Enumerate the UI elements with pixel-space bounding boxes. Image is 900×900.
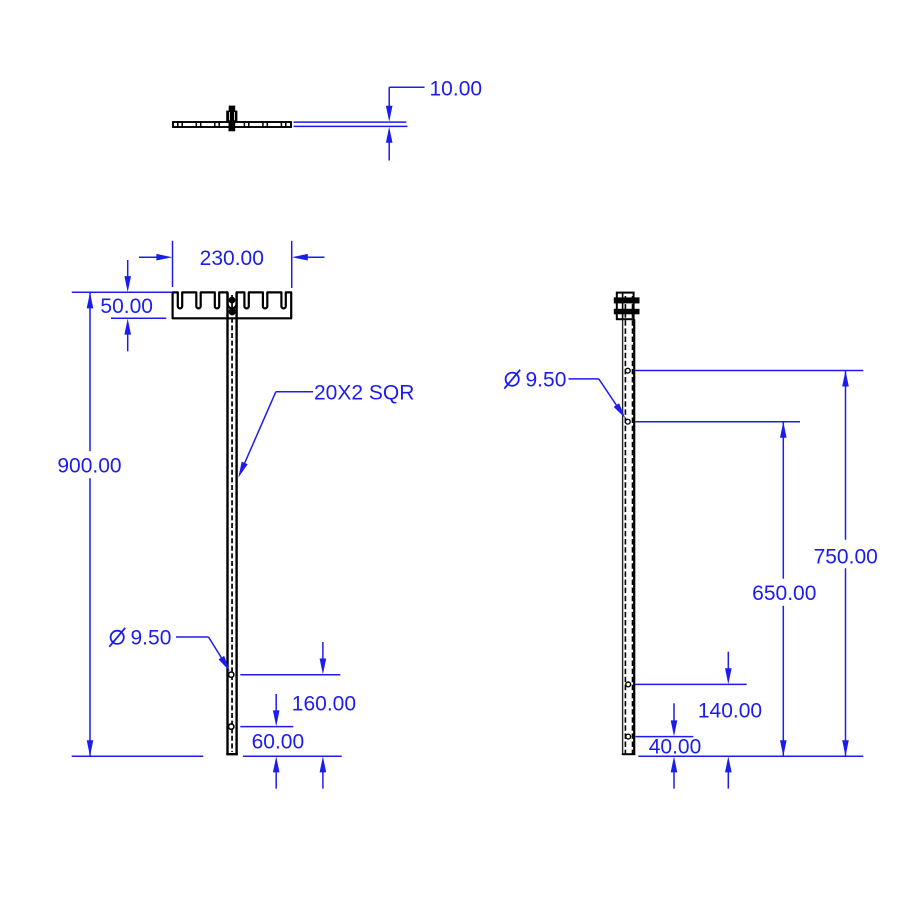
dimension 50.00 arrows [124,260,131,351]
dimension 900.00 line and arrows [87,292,94,756]
dimension text 900.00 [57,455,121,478]
tube size label 20X2 SQR leader [238,392,313,478]
svg-text:20X2 SQR: 20X2 SQR [314,382,414,405]
side view: hole at 650 from bottom [625,419,630,424]
front diameter symbol [109,628,125,647]
dimension 10.00 arrows and leader [386,87,425,160]
front view: hole at 60 from bottom [229,724,234,729]
side view: head plate outline [617,293,634,320]
dimension text 750.00 [814,545,878,568]
dimension text 160.00 [292,693,356,716]
dimension 40.00 extension line [635,736,693,738]
svg-text:9.50: 9.50 [131,627,172,650]
side baseline extension line [638,755,863,757]
dimension 50.00 extension lines [72,292,173,318]
front view: handle tube edges [226,293,238,754]
side view: lower fixing bolt (through) [614,309,640,315]
side view: hole at 40 from bottom [626,734,631,739]
svg-text:750.00: 750.00 [814,545,878,568]
dimension 650.00 line and arrows [780,422,787,757]
tube size text 20X2 SQR [314,382,414,405]
top view: rake head bar (plan view) [173,122,291,127]
side view: hole at 140 from bottom [626,682,631,687]
svg-text:140.00: 140.00 [698,699,762,722]
svg-text:50.00: 50.00 [100,295,153,318]
front view: hole at 160 from bottom [229,672,234,677]
side view: upper fixing bolt (through) [614,297,640,303]
dimension 230.00 arrows [139,254,325,261]
dimension text 40.00 [649,736,702,759]
dimension 160.00 arrows [320,642,327,789]
front view: comb head with tooth slots [173,292,292,318]
top view: tooth-slot edge ticks [178,121,286,128]
front view: lower fixing bolt (solid dot) [229,308,236,315]
svg-text:60.00: 60.00 [252,730,305,753]
front diameter text 9.50 [131,627,172,650]
dimension 140.00 arrows [725,652,732,789]
dimension text 50.00 [100,295,153,318]
side diameter text 9.50 [526,368,567,391]
dimension 230.00 extension lines [173,241,292,288]
dimension 750.00 extension line [635,370,863,372]
dimension text 230.00 [200,247,264,270]
dimension 160.00 extension line [240,674,340,676]
side diameter label leader [569,379,626,418]
dimension text 140.00 [698,699,762,722]
side view: hole at 750 from bottom [625,368,630,373]
svg-text:900.00: 900.00 [57,455,121,478]
svg-text:230.00: 230.00 [200,247,264,270]
dimension text 10.00 [430,78,483,101]
dimension 10.00 extension lines [294,122,408,126]
dimension 60.00 extension line [240,726,293,728]
side view: hidden wall dashed lines [625,296,632,754]
front view: upper fixing bolt (solid dot) [229,297,236,304]
svg-text:9.50: 9.50 [526,368,567,391]
dimension text 60.00 [252,730,305,753]
top view: fixing bolt (plan view) [226,106,237,132]
front view: handle dashed centerline [231,295,233,752]
front diameter label leader [176,637,230,671]
dimension 750.00 line and arrows [842,371,849,757]
front baseline extension line [72,755,342,757]
dimension 60.00 arrows [273,694,280,789]
dimension 40.00 arrows [671,703,678,788]
dimension 650.00 extension line [635,421,800,423]
svg-text:160.00: 160.00 [292,693,356,716]
svg-text:10.00: 10.00 [430,78,483,101]
side diameter symbol [504,370,520,389]
side view: handle tube edges [622,319,636,755]
svg-text:40.00: 40.00 [649,736,702,759]
dimension 140.00 extension line [635,683,746,685]
dimension text 650.00 [752,582,816,605]
svg-text:650.00: 650.00 [752,582,816,605]
